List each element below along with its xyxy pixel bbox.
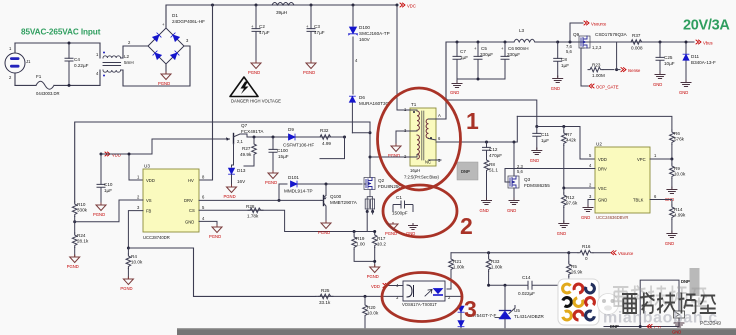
capacitor C10 [97, 154, 113, 204]
svg-text:R28: R28 [246, 204, 255, 209]
svg-text:UCC28740DR: UCC28740DR [143, 235, 170, 240]
svg-text:J1: J1 [26, 59, 31, 64]
svg-text:10.0k: 10.0k [131, 260, 143, 265]
connector J1 [5, 43, 31, 85]
wire VDD U2 feed [537, 127, 595, 160]
svg-text:4.99k: 4.99k [674, 213, 686, 218]
resistor R25 [318, 288, 333, 305]
svg-text:Q7: Q7 [241, 123, 248, 128]
svg-text:R6: R6 [674, 131, 680, 136]
svg-text:PGND: PGND [224, 194, 236, 199]
svg-text:C3: C3 [314, 24, 320, 29]
svg-text:2: 2 [460, 213, 473, 239]
svg-text:F1: F1 [36, 74, 42, 79]
svg-text:16V: 16V [237, 179, 246, 184]
node dots on DC bus [211, 4, 214, 7]
resistor R20 [363, 296, 379, 328]
capacitor C5 [474, 42, 493, 79]
svg-text:C6: C6 [508, 46, 514, 51]
svg-text:5,6: 5,6 [566, 49, 572, 54]
svg-text:Vbus: Vbus [703, 41, 713, 46]
ground GND R8 [480, 198, 492, 213]
wire T1 pin1 to VDC [397, 5, 410, 110]
svg-text:GND: GND [530, 158, 539, 163]
highlight ellipse 3 [382, 273, 462, 322]
fuse F1 [36, 74, 60, 96]
svg-text:UCC24636DBVR: UCC24636DBVR [596, 215, 628, 220]
svg-text:C2: C2 [259, 24, 265, 29]
svg-text:SMCJ160A-TP: SMCJ160A-TP [359, 31, 390, 36]
resistor R21 [447, 253, 465, 289]
watermark mascot disc [598, 294, 619, 315]
svg-text:R19: R19 [356, 236, 365, 241]
svg-text:R24: R24 [77, 233, 86, 238]
watermark logo tile [558, 279, 599, 325]
svg-text:39µH: 39µH [276, 10, 287, 15]
wire feedback top rail [451, 252, 569, 254]
svg-text:FDMS86255: FDMS86255 [524, 183, 550, 188]
svg-text:R10: R10 [77, 202, 86, 207]
svg-text:CSFMT106-HF: CSFMT106-HF [283, 143, 314, 148]
transistor Q100 MMBT2907A [321, 184, 358, 222]
svg-text:C14: C14 [522, 275, 531, 280]
wire output gnd rail [457, 78, 505, 80]
resistor R32 [318, 128, 333, 146]
svg-text:1µF: 1µF [460, 55, 468, 60]
svg-text:47µF: 47µF [259, 30, 270, 35]
svg-text:PGND: PGND [303, 70, 315, 75]
svg-text:1µF: 1µF [104, 188, 112, 193]
svg-text:C11: C11 [541, 132, 550, 137]
svg-text:VS: VS [146, 198, 152, 203]
ground PGND C1 [385, 222, 398, 236]
optocoupler U4 VOS617A [396, 281, 451, 307]
wire HV line [199, 5, 213, 180]
node junction VS divider [73, 220, 76, 223]
svg-text:CS: CS [189, 208, 195, 213]
transistor Q3 FDMS86255 [505, 142, 550, 199]
wire sense bottom [354, 248, 375, 267]
svg-text:49.9k: 49.9k [240, 152, 252, 157]
svg-text:C1: C1 [396, 195, 402, 200]
svg-text:R5: R5 [571, 264, 577, 269]
svg-text:C7: C7 [460, 49, 466, 54]
resistor R10 [72, 202, 87, 217]
svg-text:T1: T1 [411, 102, 417, 107]
wire T1 pin3 to ground [396, 131, 410, 145]
svg-text:U5: U5 [514, 308, 520, 313]
capacitor C4 [65, 43, 89, 85]
svg-text:Q100: Q100 [330, 194, 342, 199]
capacitor C2 [251, 5, 270, 62]
svg-text:DRV: DRV [598, 167, 607, 172]
svg-text:R23: R23 [592, 63, 601, 68]
net label Vsource2 [611, 251, 634, 256]
net label OCP_GATE [589, 84, 619, 89]
svg-text:442k: 442k [566, 138, 577, 143]
ground GND C8 [551, 76, 563, 91]
svg-text:MMDL914-TP: MMDL914-TP [284, 189, 313, 194]
svg-text:D101: D101 [288, 175, 299, 180]
svg-text:PGND: PGND [93, 212, 105, 217]
highlight ellipse 1 [378, 88, 461, 190]
net label VDD opto [371, 284, 403, 290]
svg-text:U3: U3 [144, 164, 150, 169]
svg-text:C8: C8 [561, 57, 567, 62]
svg-text:D13: D13 [237, 168, 246, 173]
transistor Q9 CSD17578Q3A [566, 32, 628, 54]
svg-text:1.00M: 1.00M [592, 73, 605, 78]
svg-text:DRV: DRV [184, 198, 193, 203]
wire clamp rail [247, 134, 345, 137]
wire VDD node [101, 139, 152, 180]
wire drain riser [364, 122, 370, 184]
svg-text:C10: C10 [104, 182, 113, 187]
wire compensation line [489, 284, 569, 286]
svg-text:D100: D100 [359, 25, 370, 30]
svg-text:1µF: 1µF [561, 63, 569, 68]
svg-text:R20: R20 [367, 305, 376, 310]
ground GND Q3 [507, 198, 519, 213]
resistor R33 [486, 253, 503, 286]
svg-text:GND: GND [551, 86, 560, 91]
svg-text:Vsource: Vsource [591, 22, 607, 27]
svg-text:1.00: 1.00 [356, 242, 365, 247]
ground PGND U3 [199, 221, 222, 239]
svg-text:VDD: VDD [146, 178, 155, 183]
svg-text:1: 1 [466, 108, 479, 134]
diode D16 BAT54 [458, 321, 464, 327]
ground GND R12 [557, 221, 569, 236]
ground GND C1 [406, 223, 418, 236]
svg-text:10.0k: 10.0k [674, 172, 686, 177]
svg-text:5,6: 5,6 [517, 169, 523, 174]
svg-text:D11: D11 [691, 54, 700, 59]
svg-text:R37: R37 [632, 33, 641, 38]
capacitor C11 [533, 127, 550, 150]
op-amp U3 UCC28740DR [137, 164, 205, 241]
svg-text:FCX491TA: FCX491TA [241, 129, 264, 134]
ground GND R9 [665, 187, 677, 202]
resistor R28 [246, 204, 263, 219]
wire bridge to PGND [165, 64, 167, 73]
wire FB pin [128, 211, 143, 248]
net label Vsource [570, 21, 607, 42]
svg-text:0.22µF: 0.22µF [74, 63, 89, 68]
svg-text:PGND: PGND [367, 274, 379, 279]
wire FB to opto [128, 248, 316, 296]
svg-text:47µF: 47µF [314, 30, 325, 35]
wire gate OCP [581, 48, 588, 86]
wire AC line bottom [15, 84, 100, 86]
svg-text:VPC: VPC [637, 157, 646, 162]
wire T1 pin2 to drain [370, 156, 410, 158]
svg-text:Q3: Q3 [524, 177, 531, 182]
transformer T1 [404, 102, 441, 180]
ground GND C7 [450, 79, 462, 95]
svg-text:TBLK: TBLK [633, 198, 644, 203]
svg-text:PGND: PGND [209, 234, 221, 239]
resistor R9 [670, 159, 686, 188]
wire AC line top [15, 42, 100, 44]
wire VPC sense line [446, 100, 537, 127]
svg-text:R7: R7 [566, 132, 572, 137]
svg-text:GND: GND [406, 231, 415, 236]
svg-text:R8: R8 [489, 162, 495, 167]
svg-text:R16: R16 [582, 244, 591, 249]
svg-text:R17: R17 [377, 236, 386, 241]
svg-text:0.008: 0.008 [631, 46, 643, 51]
ground PGND sense [370, 265, 380, 273]
svg-text:3: 3 [464, 296, 477, 322]
svg-text:0443003.DR: 0443003.DR [36, 91, 60, 96]
svg-text:FB: FB [146, 209, 152, 214]
svg-text:20V/3A: 20V/3A [683, 18, 730, 34]
svg-text:DNP: DNP [461, 169, 470, 174]
svg-text:VDD: VDD [598, 157, 607, 162]
common-mode choke L2 [103, 52, 121, 77]
DNP pad [457, 162, 478, 180]
svg-text:Vsource: Vsource [618, 251, 634, 256]
svg-text:D1: D1 [172, 13, 178, 18]
resistor R12 [562, 188, 578, 222]
wire U2 TBLK [650, 200, 672, 206]
op-amp U2 UCC24636DBVR [589, 142, 657, 221]
ground GND C25 [653, 72, 665, 87]
svg-text:10.0k: 10.0k [367, 311, 379, 316]
ground PGND Q100 [321, 221, 331, 229]
svg-text:PC32049: PC32049 [700, 321, 721, 327]
wire U2 VSC [564, 187, 595, 189]
bottom scrollbar [177, 328, 736, 335]
wire aux sense rail [75, 122, 370, 202]
resistor R27 [240, 137, 256, 166]
svg-text:0.022µF: 0.022µF [518, 291, 535, 296]
svg-text:GND: GND [672, 330, 681, 335]
svg-text:TL431AIDBZR: TL431AIDBZR [514, 314, 545, 319]
inductor L1 39uH [272, 3, 294, 16]
svg-text:97.6k: 97.6k [566, 201, 578, 206]
svg-text:10.2: 10.2 [377, 242, 386, 247]
node FB junction [127, 247, 130, 250]
capacitor C3 [306, 5, 325, 62]
capacitor C6 [501, 42, 520, 79]
ground GND R14 [665, 231, 677, 246]
svg-text:470pF: 470pF [489, 153, 502, 158]
svg-text:PGND: PGND [67, 264, 79, 269]
svg-text:L2: L2 [124, 54, 130, 59]
node dot C4 bottom [68, 84, 71, 87]
svg-text:576k: 576k [674, 137, 685, 142]
capacitor C1 [392, 195, 413, 216]
ground PGND D13 [227, 185, 237, 193]
svg-text:4.99: 4.99 [322, 141, 331, 146]
svg-text:R27: R27 [242, 146, 251, 151]
svg-text:VOS617A-TX001T: VOS617A-TX001T [402, 302, 437, 307]
svg-text:C5: C5 [481, 46, 487, 51]
node dots output rail [456, 41, 459, 44]
svg-text:D9: D9 [288, 127, 294, 132]
svg-text:R4: R4 [131, 254, 137, 259]
wire bottom right loop [604, 280, 679, 326]
wire opto output chain [445, 296, 461, 332]
net label Vbus [696, 40, 713, 46]
wire T1 pinA to output rail [436, 42, 694, 119]
capacitor C25 [656, 42, 675, 73]
svg-text:16µH: 16µH [410, 168, 420, 173]
net label CTL [647, 325, 663, 331]
TVS diode D100 [349, 5, 390, 94]
svg-text:MMBT2907A: MMBT2907A [330, 200, 358, 205]
watermark ghost CJK copy [613, 286, 707, 307]
ground GND U2 [581, 200, 595, 221]
node gate junction [325, 183, 328, 186]
sense resistor pair boxes [365, 190, 374, 212]
capacitor C100 [269, 137, 289, 172]
wire R24 to ground [74, 248, 76, 257]
svg-text:GND: GND [653, 82, 662, 87]
svg-text:1.00k: 1.00k [491, 265, 503, 270]
wire choke return [121, 46, 190, 86]
resistor R14 [670, 205, 686, 232]
svg-text:VDD: VDD [112, 152, 121, 157]
svg-text:7:2:5(Pri:Sec:Bias): 7:2:5(Pri:Sec:Bias) [404, 175, 440, 180]
ground PGND bridge [161, 72, 171, 80]
svg-text:PGND: PGND [385, 231, 397, 236]
wire U2 DRV to Q3 gate [505, 168, 595, 170]
svg-text:OCP_GATE: OCP_GATE [596, 84, 619, 89]
shunt ref U5 TL431 [495, 285, 545, 332]
svg-text:10µF: 10µF [664, 61, 675, 66]
resistor R8 [484, 158, 498, 199]
svg-text:15µF: 15µF [278, 154, 289, 159]
svg-text:VDD: VDD [371, 284, 380, 289]
bridge rectifier D1 [148, 13, 205, 64]
svg-text:R14: R14 [674, 207, 683, 212]
svg-text:U2: U2 [596, 142, 602, 147]
highlight ellipse 2 [383, 185, 457, 237]
svg-text:Isense: Isense [628, 68, 641, 73]
wire loop top [517, 116, 672, 130]
danger high voltage warning [230, 77, 281, 104]
svg-text:VDC: VDC [407, 4, 416, 9]
svg-text:PGND: PGND [318, 230, 330, 235]
svg-text:GND: GND [598, 198, 607, 203]
svg-text:A: A [438, 113, 441, 118]
ground PGND C10 [96, 203, 106, 211]
wire D6 join [352, 132, 370, 134]
wire T1 pin5 stub [436, 159, 441, 161]
zener D13 [229, 165, 247, 186]
resistor R24 [72, 233, 89, 248]
svg-text:DNP: DNP [681, 279, 690, 284]
net label VDC [400, 3, 416, 9]
svg-text:GND: GND [557, 231, 566, 236]
svg-text:PGND: PGND [158, 81, 170, 86]
svg-text:C12: C12 [489, 147, 498, 152]
ground PGND R24 [70, 255, 80, 263]
wire DRV line [199, 199, 321, 201]
svg-text:28.1k: 28.1k [77, 239, 89, 244]
diode D11 [683, 41, 716, 81]
svg-text:1,2,3: 1,2,3 [592, 45, 602, 50]
resistor R23 [588, 63, 614, 79]
svg-text:PGND: PGND [248, 70, 260, 75]
ground PGND T1 [391, 144, 401, 152]
diode D9 [283, 127, 314, 148]
svg-text:330k: 330k [77, 208, 88, 213]
ground PGND C100 [268, 171, 278, 179]
svg-text:C4: C4 [74, 57, 80, 62]
svg-text:C100: C100 [277, 148, 288, 153]
svg-text:R25: R25 [321, 288, 330, 293]
svg-text:R33: R33 [491, 259, 500, 264]
resistor R4 [126, 248, 143, 269]
svg-text:GND: GND [665, 241, 674, 246]
wire VS pin [75, 200, 143, 222]
svg-text:GND: GND [581, 215, 590, 220]
node dot C4 top [68, 42, 71, 45]
schematic groups appended below [5, 3, 441, 297]
ground GND C11 [530, 148, 542, 163]
svg-text:R9: R9 [674, 166, 680, 171]
watermark CJK text 面包板社区 [622, 293, 716, 314]
svg-text:C25: C25 [664, 55, 673, 60]
svg-text:900nH: 900nH [515, 46, 529, 51]
diode D15 BAT54 [458, 306, 496, 318]
svg-text:NC: NC [425, 160, 431, 165]
capacitor C8 [554, 42, 570, 77]
ground GND bottom right [674, 321, 684, 328]
svg-text:GND: GND [507, 208, 516, 213]
capacitor C7 [453, 42, 468, 79]
svg-text:VSC: VSC [598, 186, 607, 191]
svg-text:85VAC-265VAC Input: 85VAC-265VAC Input [21, 28, 101, 37]
svg-text:1.00k: 1.00k [453, 265, 465, 270]
resistor R6 576k [670, 130, 685, 159]
svg-text:GND: GND [185, 220, 194, 225]
wire Q3 drain riser [436, 116, 517, 142]
svg-text:160V: 160V [359, 37, 371, 42]
svg-text:GND: GND [480, 208, 489, 213]
svg-text:GND: GND [450, 90, 459, 95]
svg-text:PGND: PGND [265, 180, 277, 185]
svg-text:33.1k: 33.1k [319, 300, 331, 305]
transistor Q2 FDU8N25 MOSFET [364, 178, 405, 190]
svg-text:2,1: 2,1 [237, 139, 243, 144]
wire opto input [316, 295, 403, 297]
resistor R17 [372, 233, 386, 248]
svg-text:1µF: 1µF [541, 138, 549, 143]
wire choke to bridge [121, 46, 148, 58]
svg-text:24DGP406L-HF: 24DGP406L-HF [172, 19, 205, 24]
ground PGND C3 [306, 61, 316, 69]
svg-text:CSD17578Q3A: CSD17578Q3A [595, 32, 628, 37]
wire CS line [199, 210, 354, 231]
svg-text:Q2: Q2 [378, 178, 385, 183]
net label VDD [100, 152, 121, 157]
svg-text:0: 0 [585, 256, 588, 261]
wire R4 to ground [127, 269, 129, 279]
svg-text:330µF: 330µF [480, 52, 493, 57]
resistor R37 [629, 33, 644, 51]
net label Isense [615, 42, 641, 73]
wire to choke [99, 43, 101, 85]
svg-text:51.1: 51.1 [489, 168, 498, 173]
svg-text:Q9: Q9 [573, 32, 580, 37]
svg-text:PGND: PGND [120, 286, 132, 291]
wire clamp stub [320, 137, 345, 159]
